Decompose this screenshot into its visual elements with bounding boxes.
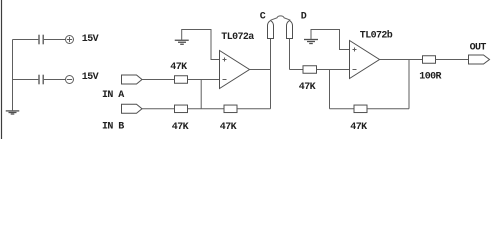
svg-text:15V: 15V xyxy=(82,72,99,83)
svg-text:15V: 15V xyxy=(82,34,99,45)
svg-text:D: D xyxy=(301,11,307,22)
svg-text:TL072a: TL072a xyxy=(221,32,254,43)
svg-text:OUT: OUT xyxy=(470,43,487,54)
svg-text:C: C xyxy=(260,11,266,22)
svg-text:47K: 47K xyxy=(299,82,316,93)
svg-text:47K: 47K xyxy=(170,62,187,73)
svg-text:IN B: IN B xyxy=(102,122,124,133)
svg-text:IN A: IN A xyxy=(102,90,124,101)
svg-text:47K: 47K xyxy=(220,122,237,133)
svg-text:47K: 47K xyxy=(172,122,189,133)
svg-text:47K: 47K xyxy=(350,122,367,133)
svg-text:100R: 100R xyxy=(419,72,441,83)
svg-text:TL072b: TL072b xyxy=(360,30,393,42)
